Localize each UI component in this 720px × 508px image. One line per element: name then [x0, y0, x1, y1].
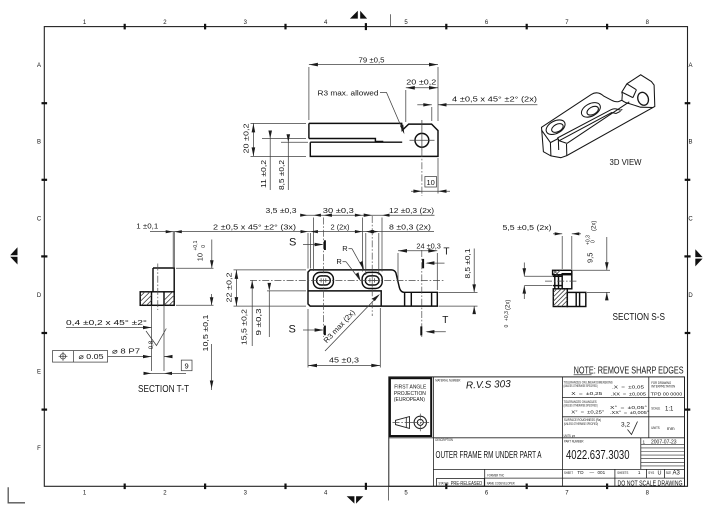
- svg-text:S: S: [289, 323, 296, 335]
- svg-text:STATUS: STATUS: [439, 481, 449, 485]
- svg-text:1: 1: [643, 440, 646, 445]
- svg-text:C: C: [688, 216, 693, 222]
- svg-text:PART NUMBER: PART NUMBER: [564, 440, 584, 444]
- svg-text:R: R: [342, 244, 348, 253]
- svg-text:U: U: [658, 471, 662, 477]
- svg-text:⌀ 0.05: ⌀ 0.05: [79, 354, 104, 361]
- svg-text:45 ±0,3: 45 ±0,3: [329, 355, 359, 364]
- svg-text:(UNLESS OTHERWISE SPECIFIED): (UNLESS OTHERWISE SPECIFIED): [564, 404, 598, 408]
- svg-text:10: 10: [195, 253, 204, 261]
- svg-text:3,2: 3,2: [621, 421, 630, 428]
- svg-text:10,5 ±0,1: 10,5 ±0,1: [201, 315, 210, 352]
- svg-text:(EUROPEAN): (EUROPEAN): [394, 397, 425, 403]
- svg-text:0,8: 0,8: [149, 340, 155, 349]
- svg-text:D: D: [37, 293, 42, 299]
- svg-text:9,5: 9,5: [586, 253, 595, 263]
- svg-text:D: D: [688, 293, 693, 299]
- svg-text:.XX = ±0,005: .XX = ±0,005: [611, 391, 647, 396]
- svg-text:+0,3: +0,3: [504, 311, 510, 321]
- svg-text:TPD 00 0000: TPD 00 0000: [651, 391, 683, 397]
- svg-text:15,5 ±0,2: 15,5 ±0,2: [240, 309, 249, 345]
- svg-text:(2x): (2x): [592, 221, 598, 231]
- svg-text:(UNLESS OTHERWISE SPECIFIED): (UNLESS OTHERWISE SPECIFIED): [564, 384, 598, 388]
- svg-text:S: S: [289, 236, 296, 248]
- svg-text:SHEETS: SHEETS: [617, 471, 629, 475]
- svg-text:1: 1: [638, 470, 641, 475]
- svg-text:A: A: [37, 63, 41, 69]
- svg-text:12 ±0,3 (2x): 12 ±0,3 (2x): [389, 206, 435, 215]
- svg-text:8,5 ±0,2: 8,5 ±0,2: [277, 160, 286, 190]
- svg-text:1 ±0,1: 1 ±0,1: [136, 221, 158, 230]
- svg-text:MATERIAL NUMBER: MATERIAL NUMBER: [435, 379, 460, 383]
- svg-text:A: A: [688, 63, 692, 69]
- svg-text:A3: A3: [673, 471, 681, 477]
- svg-text:—: —: [590, 470, 595, 475]
- svg-text:4022.637.3030: 4022.637.3030: [566, 447, 630, 462]
- svg-text:T: T: [443, 247, 449, 258]
- svg-text:INTERPRETATION: INTERPRETATION: [651, 385, 675, 389]
- svg-text:22 ±0,2: 22 ±0,2: [225, 273, 234, 303]
- svg-text:.XX° = ±0,005°: .XX° = ±0,005°: [610, 410, 649, 415]
- svg-text:UNITS: μm: UNITS: μm: [564, 434, 576, 438]
- svg-text:3D VIEW: 3D VIEW: [610, 157, 642, 167]
- svg-text:30 ±0,3: 30 ±0,3: [323, 206, 354, 215]
- svg-text:PROJECTION: PROJECTION: [394, 391, 426, 397]
- svg-text:R3 max. allowed: R3 max. allowed: [318, 89, 379, 98]
- svg-text:R.V.S 303: R.V.S 303: [466, 379, 512, 392]
- svg-text:X° = ±0,25°: X° = ±0,25°: [571, 409, 604, 414]
- svg-text:mm: mm: [667, 426, 675, 431]
- svg-text:B: B: [688, 140, 692, 146]
- svg-text:+0,1: +0,1: [193, 240, 199, 250]
- svg-text:0: 0: [504, 325, 510, 328]
- svg-text:5,5 ±0,5 (2x): 5,5 ±0,5 (2x): [503, 223, 553, 232]
- svg-text:(2x): (2x): [506, 300, 512, 310]
- svg-text:9 ±0,3: 9 ±0,3: [254, 309, 263, 336]
- svg-text:2 ±0,5 x 45° ±2° (3x): 2 ±0,5 x 45° ±2° (3x): [213, 222, 297, 231]
- svg-text:20 ±0,2: 20 ±0,2: [406, 78, 436, 87]
- svg-text:11 ±0,2: 11 ±0,2: [259, 160, 268, 188]
- svg-text:001: 001: [598, 470, 606, 475]
- svg-text:⌀ 8 P7: ⌀ 8 P7: [112, 348, 140, 355]
- svg-text:0: 0: [591, 240, 597, 243]
- svg-text:SECTION S-S: SECTION S-S: [613, 312, 666, 323]
- svg-text:1:1: 1:1: [665, 407, 674, 413]
- svg-text:24 ±0,3: 24 ±0,3: [416, 241, 441, 250]
- svg-text:SYS: SYS: [648, 471, 655, 475]
- svg-text:8 ±0,3 (2x): 8 ±0,3 (2x): [389, 222, 432, 231]
- svg-text:0: 0: [201, 245, 207, 248]
- svg-text:E: E: [37, 370, 41, 376]
- svg-text:2007-07-23: 2007-07-23: [651, 440, 677, 446]
- svg-text:F: F: [37, 446, 41, 452]
- svg-text:DO NOT SCALE DRAWING: DO NOT SCALE DRAWING: [618, 478, 683, 487]
- svg-text:NAME CODEVELOPER: NAME CODEVELOPER: [487, 481, 515, 485]
- svg-text:SHEET: SHEET: [564, 471, 573, 475]
- svg-text:FIRST ANGLE: FIRST ANGLE: [394, 384, 427, 390]
- svg-text:79 ±0,5: 79 ±0,5: [359, 55, 385, 64]
- svg-text:3,5 ±0,3: 3,5 ±0,3: [266, 206, 297, 215]
- svg-text:TD: TD: [577, 470, 584, 475]
- svg-text:R: R: [336, 257, 342, 266]
- svg-text:C: C: [37, 216, 42, 222]
- svg-text:OUTER FRAME RM UNDER PART A: OUTER FRAME RM UNDER PART A: [436, 450, 542, 461]
- svg-text:FORMER TNC: FORMER TNC: [487, 473, 504, 477]
- svg-text:4 ±0,5 x 45° ±2° (2x): 4 ±0,5 x 45° ±2° (2x): [452, 95, 538, 104]
- svg-text:9: 9: [185, 362, 189, 371]
- svg-text:0,4 ±0,2 x 45° ±2°: 0,4 ±0,2 x 45° ±2°: [66, 319, 147, 327]
- svg-text:20 ±0,2: 20 ±0,2: [241, 124, 250, 154]
- svg-text:DESCRIPTION: DESCRIPTION: [435, 438, 453, 442]
- svg-text:SECTION T-T: SECTION T-T: [138, 384, 189, 395]
- svg-text:2 (2x): 2 (2x): [331, 222, 350, 231]
- svg-text:SIZE: SIZE: [666, 471, 672, 475]
- svg-text:UNITS: UNITS: [651, 426, 660, 430]
- svg-text:B: B: [37, 140, 41, 146]
- svg-text:8,5 ±0,1: 8,5 ±0,1: [463, 249, 472, 279]
- svg-text:T: T: [442, 315, 448, 326]
- svg-text:(UNLESS OTHERWISE SPECIFIED): (UNLESS OTHERWISE SPECIFIED): [564, 422, 598, 426]
- svg-text:10: 10: [427, 178, 435, 187]
- svg-text:X = ±0,25: X = ±0,25: [571, 391, 603, 396]
- svg-text:SCALE: SCALE: [651, 407, 660, 411]
- svg-text:.X = ±0,05: .X = ±0,05: [612, 384, 645, 389]
